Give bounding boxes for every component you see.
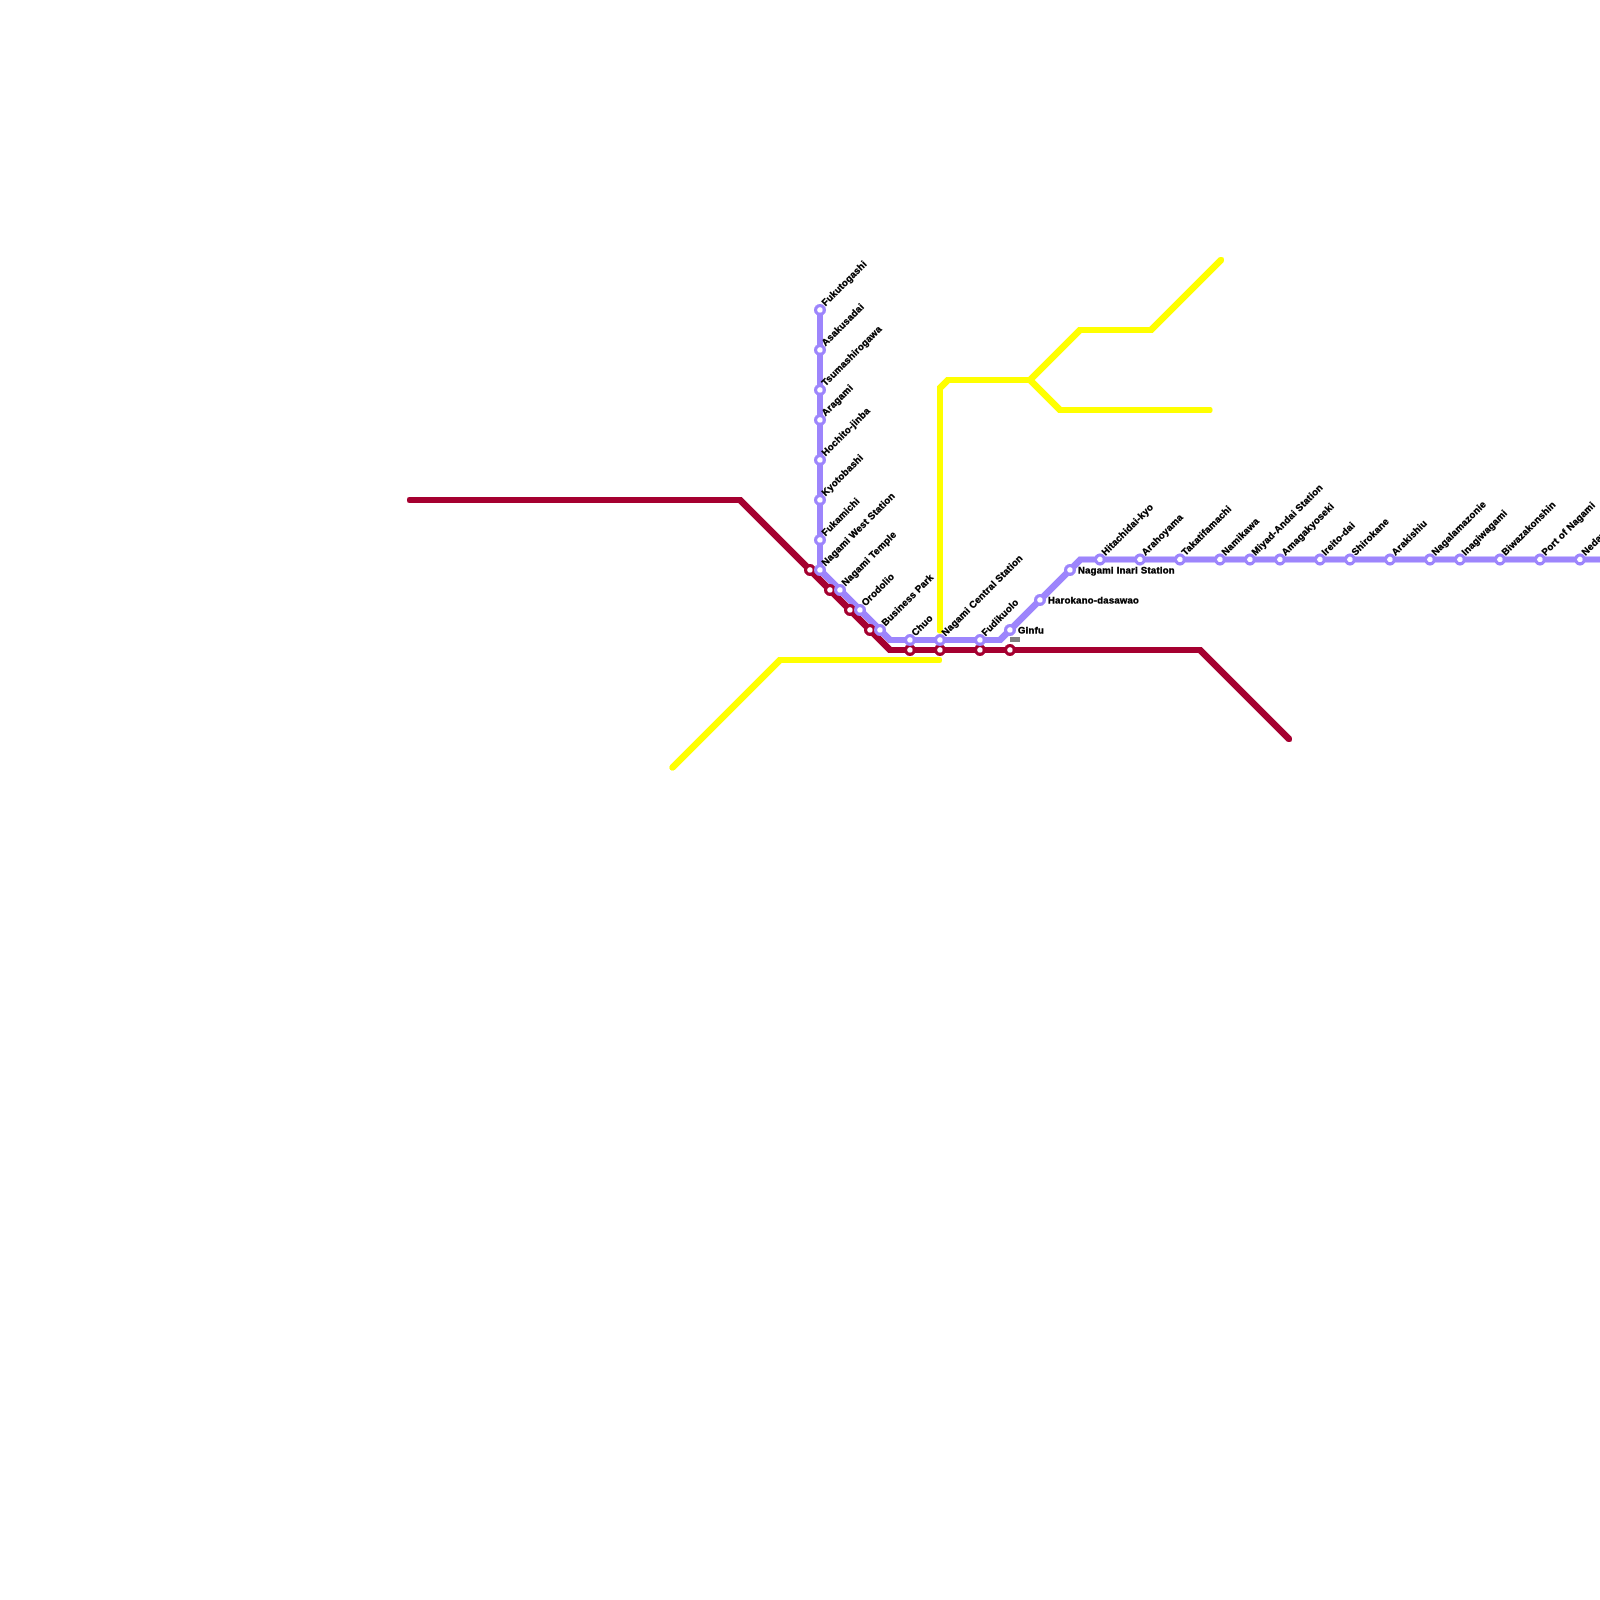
svg-text:Ginfu: Ginfu — [1018, 626, 1044, 637]
yellow line north trunk — [940, 260, 1221, 631]
station labels horizontal — [1018, 566, 1175, 637]
svg-text:Nagami Inari Station: Nagami Inari Station — [1078, 566, 1175, 577]
svg-text:Harokano-dasawao: Harokano-dasawao — [1048, 596, 1139, 607]
red line — [410, 500, 1289, 739]
interchange connector Ginfu — [1010, 637, 1020, 642]
yellow line east branch — [1030, 380, 1210, 410]
station labels rotated — [820, 259, 1600, 639]
purple line stations — [816, 306, 1585, 645]
yellow line southwest branch — [673, 660, 940, 768]
red line stations — [806, 566, 1015, 655]
purple line — [820, 310, 1600, 640]
